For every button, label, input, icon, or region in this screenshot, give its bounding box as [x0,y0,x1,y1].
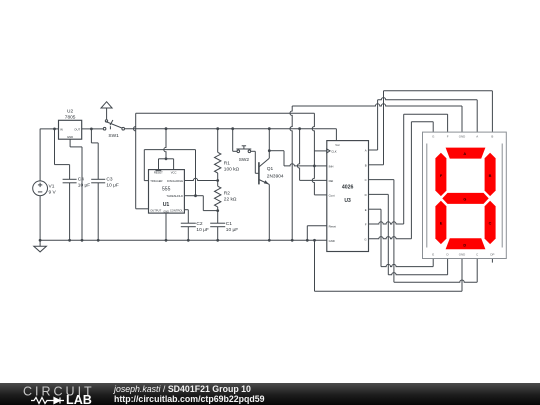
svg-text:2N3904: 2N3904 [267,174,284,180]
wire C4 branch [55,129,70,179]
wire 4026 G to display [369,122,434,239]
regulator U2 7805 [59,109,82,140]
wire DISCHARGE [184,178,219,182]
svg-text:E: E [440,222,443,226]
wire SW2 to base [255,151,259,173]
svg-text:10 μF: 10 μF [106,183,118,189]
svg-text:22 kΩ: 22 kΩ [224,197,237,203]
svg-text:SW1: SW1 [108,133,119,139]
wire DP stub [491,259,493,263]
wire 4026 C to display [369,180,478,283]
svg-text:V1: V1 [49,184,55,190]
wire display GND top [290,104,462,242]
svg-text:C2: C2 [196,221,202,227]
svg-text:LAB: LAB [66,393,92,405]
segment G [442,193,488,204]
wire collector to INH [269,151,316,168]
svg-text:R1: R1 [224,160,230,166]
svg-text:C: C [365,178,367,182]
wire THRESHOLD [184,196,219,212]
wire U2 IN [40,127,58,130]
wire INH stub [314,165,326,167]
switch SW1 [103,120,124,139]
svg-text:4026: 4026 [342,185,354,191]
wire Reset [306,226,327,242]
wire CLK net [312,113,327,195]
7-segment display U4 frame [423,132,507,258]
svg-text:Reset: Reset [329,224,337,228]
svg-text:D: D [365,193,367,197]
svg-text:CLK: CLK [331,150,337,154]
wire U2 OUT [82,127,104,130]
svg-text:9 V: 9 V [49,190,57,196]
svg-text:OUT: OUT [74,128,80,132]
voltage source V1 [33,129,57,241]
svg-text:100 kΩ: 100 kΩ [224,166,240,172]
svg-text:RESET: RESET [154,171,163,175]
svg-text:E: E [432,253,434,257]
resistor R2 [215,181,237,211]
wire Q1 emitter [268,184,271,241]
svg-text:DP: DP [490,253,494,257]
svg-text:DEI: DEI [329,179,334,183]
svg-text:B: B [489,174,492,178]
svg-text:7805: 7805 [65,114,76,120]
capacitor C3 [91,177,119,242]
wire 4026 A to display [369,98,478,150]
capacitor C1 [210,211,238,242]
5V rail wire [125,129,337,141]
svg-text:GND: GND [459,135,465,139]
svg-text:D: D [447,253,449,257]
svg-text:A: A [365,149,367,153]
segment A [446,148,486,159]
svg-text:10 μF: 10 μF [78,183,90,189]
svg-text:THRESHOLD: THRESHOLD [166,194,183,198]
svg-text:C4: C4 [78,177,84,183]
wire C3 branch [91,129,98,179]
svg-text:B: B [491,135,493,139]
VCC arrow [101,102,112,120]
capacitor C4 [63,177,91,242]
svg-text:E: E [365,208,367,212]
svg-text:INH: INH [329,165,334,169]
svg-text:OUTPUT: OUTPUT [150,208,161,212]
ground [34,239,47,252]
wire 4026 E to display [369,209,434,266]
svg-text:C: C [476,253,478,257]
footer text [114,384,265,405]
svg-text:SW2: SW2 [239,157,250,163]
svg-text:U1: U1 [163,202,170,208]
svg-text:G: G [463,198,466,202]
wire display GND bottom [313,239,462,291]
wire DEI net [297,127,326,180]
svg-text:U3: U3 [344,198,351,204]
capacitor C2 [181,221,209,242]
wire CONTROL [184,210,188,224]
segment F [435,153,446,196]
wire 4026 D to display [369,194,448,274]
svg-text:C1: C1 [226,221,232,227]
ground rail wire [40,239,327,241]
segment E [435,201,446,244]
svg-text:CONTROL: CONTROL [170,208,184,212]
switch SW2 [231,127,255,163]
svg-text:10 μF: 10 μF [196,227,208,233]
svg-text:A: A [476,135,478,139]
resistor R1 [215,127,240,180]
wire 555 GND [165,213,168,242]
svg-text:B: B [365,163,367,167]
segment D [446,238,486,249]
svg-text:IN: IN [60,128,63,132]
wire 4026 B to display [369,91,493,165]
svg-text:GND: GND [459,253,465,257]
svg-text:F: F [447,135,449,139]
wire 555 OUTPUT [134,113,315,209]
svg-text:F: F [365,223,367,227]
svg-text:10 μF: 10 μF [226,227,238,233]
svg-text:C: C [489,222,492,226]
svg-text:DISCHARGE: DISCHARGE [167,179,183,183]
wire Q1 collector [268,127,271,158]
svg-text:Cout: Cout [329,194,335,198]
wire TRIGGER-THRESHOLD [144,150,197,198]
svg-text:R2: R2 [224,191,230,197]
svg-text:TRIGGER: TRIGGER [150,179,162,183]
segment C [485,201,496,244]
svg-text:GND: GND [67,135,73,139]
svg-text:A: A [463,152,466,156]
svg-text:D: D [463,243,466,247]
wire 555 RESET/VCC loop [159,127,174,169]
timer U1 555 [149,170,185,214]
svg-text:Q1: Q1 [267,166,274,172]
counter U3 4026 [327,141,369,252]
svg-text:Vcc: Vcc [335,143,340,147]
svg-text:VCC: VCC [171,171,177,175]
footer bar [0,383,540,405]
svg-text:G: G [364,237,366,241]
transistor Q1 2N3904 [259,158,284,184]
svg-text:555: 555 [162,186,171,192]
circuitlab logo [0,383,100,405]
segment B [485,153,496,196]
wire U2 GND [70,139,83,242]
svg-text:U2: U2 [67,109,73,115]
wire 4026 F to display [369,114,448,224]
svg-text:C3: C3 [106,177,112,183]
svg-text:GND: GND [329,239,335,243]
